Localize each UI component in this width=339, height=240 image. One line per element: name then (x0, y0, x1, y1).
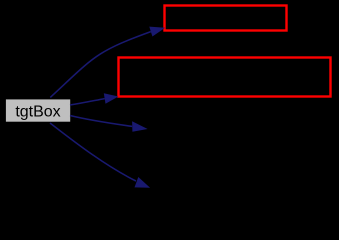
edge tgtBox to red box 1 (50, 27, 165, 98)
red box 1 (165, 6, 287, 31)
red box 2 (119, 58, 331, 97)
edge tgtBox to red box 2 (70, 93, 118, 105)
edge tgtBox to hidden node B (50, 123, 150, 188)
arrowhead to hidden node A (132, 121, 148, 132)
arrowhead to box 1 (149, 27, 165, 37)
svg-text:tgtBox: tgtBox (15, 104, 60, 121)
edge tgtBox to hidden node A (70, 116, 148, 132)
arrowhead to hidden node B (135, 177, 151, 188)
node tgtBox (5, 99, 70, 122)
arrowhead to box 2 (104, 93, 119, 104)
